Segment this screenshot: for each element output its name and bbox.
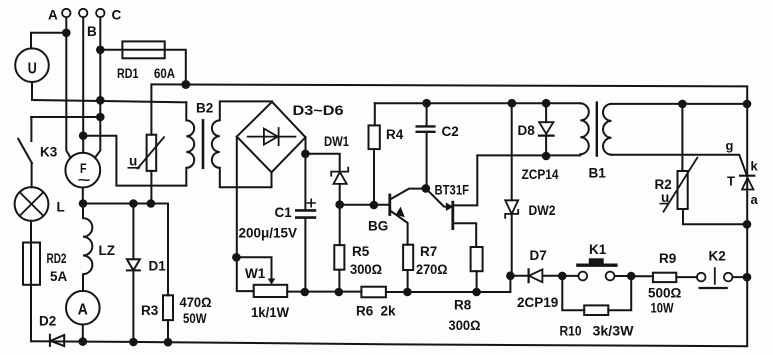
junction C-N2 [96, 113, 105, 122]
wire U meter top [31, 33, 66, 49]
frequency meter F [65, 153, 100, 188]
junction C-N1 [96, 96, 105, 105]
wire net N2 horizontal to K3 [31, 116, 100, 118]
transformer B2 primary [186, 102, 194, 185]
svg-text:2k: 2k [381, 304, 397, 319]
varistor u diagonal [138, 137, 165, 168]
svg-text:3k/3W: 3k/3W [593, 324, 634, 339]
pushbutton K1 [562, 275, 578, 277]
svg-text:300Ω: 300Ω [449, 318, 481, 333]
junction rail-D1 [129, 338, 138, 347]
wire lamp to RD2 to bottom rail [30, 221, 32, 341]
junction W1 wiper tap [232, 253, 241, 262]
wire BG collector to BT31F emitter [426, 188, 448, 206]
svg-text:~: ~ [78, 172, 91, 188]
svg-text:300Ω: 300Ω [350, 262, 382, 277]
junction bus-R8 [472, 288, 481, 297]
potentiometer W1 body [254, 285, 288, 297]
junction DW1-R5-base [335, 200, 344, 209]
wire bridge plus [305, 137, 307, 154]
transformer B2 core [202, 120, 205, 167]
resistor R3 [167, 204, 169, 296]
svg-text:a: a [751, 192, 759, 207]
wire net N1 horizontal to B2 primary [32, 100, 186, 102]
wire bottom rail [31, 341, 747, 346]
capacitor C1 [304, 154, 306, 210]
junction bridge plus [301, 150, 310, 159]
junction D8-B1 [542, 152, 551, 161]
diode D7 [510, 275, 528, 277]
junction R2-T [743, 220, 752, 229]
resistor R5 [339, 205, 341, 246]
svg-text:ZCP14: ZCP14 [522, 167, 559, 182]
junction K2-T [743, 273, 752, 282]
svg-text:R8: R8 [454, 298, 472, 313]
svg-text:D7: D7 [530, 248, 547, 263]
bridge rectifier D3~D6 [237, 102, 306, 173]
junction bus-R7 [403, 288, 412, 297]
terminal C [96, 9, 104, 17]
wire K3 to lamp [31, 163, 33, 187]
svg-text:K2: K2 [709, 249, 726, 264]
svg-text:470Ω: 470Ω [180, 295, 212, 310]
svg-text:BT31F: BT31F [435, 183, 470, 198]
wire phase B vertical [82, 17, 84, 153]
svg-text:W1: W1 [245, 266, 266, 281]
wire F meter bottom [82, 188, 84, 204]
svg-text:50W: 50W [183, 311, 207, 326]
svg-text:D2: D2 [39, 314, 56, 329]
svg-text:D1: D1 [149, 259, 167, 274]
resistor R10 branch [562, 276, 584, 310]
junction base-R4 [370, 201, 379, 210]
resistor R9 [631, 275, 653, 277]
wire plus to DW1 [305, 154, 339, 172]
resistor R7 [403, 245, 413, 270]
svg-text:R9: R9 [659, 251, 676, 266]
thyristor T [746, 86, 748, 189]
svg-text:D3~D6: D3~D6 [293, 103, 345, 118]
svg-text:R4: R4 [386, 127, 404, 142]
resistor R6 in bus [361, 287, 386, 298]
zener DW2 [511, 103, 513, 200]
junction F-LZ-N3 [79, 199, 88, 208]
diode D8 [545, 103, 547, 122]
wire K3 top [30, 117, 32, 141]
svg-text:K3: K3 [40, 145, 58, 160]
wire B1 secondary top [612, 103, 748, 105]
svg-text:10W: 10W [651, 301, 674, 316]
svg-text:C: C [112, 8, 122, 23]
transistor BT31F [451, 202, 454, 228]
junction rail-T [743, 100, 752, 109]
svg-text:g: g [726, 138, 734, 153]
fuse RD2 [23, 243, 40, 285]
junction N3-varistor [147, 199, 156, 208]
inductor LZ [83, 204, 92, 291]
junction A-U [62, 29, 71, 38]
wire W1 wiper [236, 257, 271, 279]
wire U meter bottom [31, 82, 33, 100]
svg-text:270Ω: 270Ω [416, 262, 448, 277]
wire BG base net [340, 204, 390, 206]
svg-text:DW2: DW2 [529, 203, 556, 218]
voltmeter U [15, 48, 49, 82]
switch K3 blade [18, 139, 32, 163]
wire R2 bottom [683, 210, 747, 225]
svg-text:R5: R5 [352, 244, 370, 259]
wire W1 right [287, 291, 361, 293]
svg-text:R3: R3 [141, 303, 159, 318]
svg-text:C2: C2 [442, 124, 459, 139]
junction BG collector-C2 [422, 184, 431, 193]
junction rail-Ameter [79, 337, 88, 346]
svg-text:A: A [48, 8, 58, 23]
zener DW1 [331, 168, 348, 176]
resistor R4 [374, 103, 376, 125]
wire phase A vertical [66, 17, 70, 158]
transformer B1 core [596, 103, 598, 156]
svg-text:2CP19: 2CP19 [517, 295, 558, 310]
svg-text:1k/1W: 1k/1W [251, 305, 289, 320]
fuse RD1 body [122, 41, 164, 58]
junction N3-D1 [129, 199, 138, 208]
transformer B2 secondary [212, 101, 272, 187]
diode D2 [49, 335, 51, 346]
capacitor C2 [426, 103, 428, 126]
svg-text:R6: R6 [356, 304, 374, 319]
junction C-RD1 [96, 46, 105, 55]
junction B-B2 [79, 131, 88, 140]
wire net collector rail to B1 primary bottom [477, 154, 580, 156]
varistor u top wire [150, 84, 152, 134]
diode D1 [132, 204, 134, 260]
svg-text:DW1: DW1 [324, 134, 349, 149]
arrow W1 wiper head [268, 279, 276, 285]
fuse RD1 wire [100, 50, 186, 85]
svg-text:C1: C1 [275, 205, 293, 220]
svg-text:k: k [751, 159, 759, 174]
varistor R2 body [678, 171, 688, 209]
junction DW2-D7 [506, 272, 515, 281]
lamp L [15, 187, 49, 221]
svg-text:D8: D8 [518, 123, 536, 138]
junction rail-DW2 [508, 99, 517, 108]
varistor u bottom wire [150, 171, 152, 204]
transistor BG [388, 195, 391, 215]
svg-text:RD1: RD1 [117, 66, 139, 81]
transformer B1 secondary [603, 104, 612, 155]
varistor R2 top wire [681, 104, 683, 171]
transformer B1 primary [580, 103, 589, 154]
wire bridge minus vertical [237, 137, 254, 292]
svg-text:K1: K1 [589, 242, 607, 257]
svg-text:L: L [57, 200, 65, 215]
svg-text:BG: BG [368, 219, 388, 234]
wire bus right of R6 [386, 276, 511, 292]
wire net N3 horizontal F/D1/varistor/R3 [83, 203, 168, 205]
junction bus-R5 [335, 288, 344, 297]
svg-text:A: A [78, 302, 88, 319]
svg-text:B2: B2 [196, 101, 213, 116]
svg-text:LZ: LZ [99, 243, 116, 258]
resistor R8 [471, 247, 483, 271]
svg-text:u: u [129, 154, 137, 169]
svg-text:R7: R7 [420, 244, 437, 259]
wire B phase to B2 primary bottom [83, 136, 186, 186]
wire B1 secondary bottom gate g [612, 155, 747, 176]
svg-text:500Ω: 500Ω [648, 286, 682, 301]
wire A meter bottom [82, 325, 84, 342]
svg-text:R10: R10 [560, 324, 582, 339]
wire phase C vertical [95, 17, 100, 158]
svg-text:T: T [727, 174, 735, 189]
junction K1-R9-R10 [627, 272, 636, 281]
wire top rail [152, 84, 747, 86]
svg-text:B: B [87, 24, 97, 39]
svg-text:RD2: RD2 [47, 251, 67, 266]
junction rail-R2 [678, 100, 687, 109]
svg-text:B1: B1 [589, 166, 607, 181]
ammeter A [66, 291, 100, 325]
terminal A [62, 9, 70, 17]
svg-text:u: u [661, 190, 669, 205]
svg-text:5A: 5A [50, 269, 68, 284]
wire upper rail left [375, 102, 581, 104]
varistor R2 diagonal [664, 158, 698, 212]
junction bus-C1 [301, 288, 310, 297]
terminal B [79, 9, 87, 17]
svg-text:60A: 60A [154, 66, 175, 81]
junction RD1-toprail [181, 80, 190, 89]
varistor u body [147, 135, 157, 171]
junction rail-C2 [422, 99, 431, 108]
svg-text:200μ/15V: 200μ/15V [239, 226, 298, 241]
junction rail-D8 [542, 99, 551, 108]
junction rail-R3 [164, 338, 173, 347]
svg-text:U: U [28, 61, 37, 78]
switch K2 [697, 273, 706, 282]
junction D7-K1-R10 [558, 272, 567, 281]
